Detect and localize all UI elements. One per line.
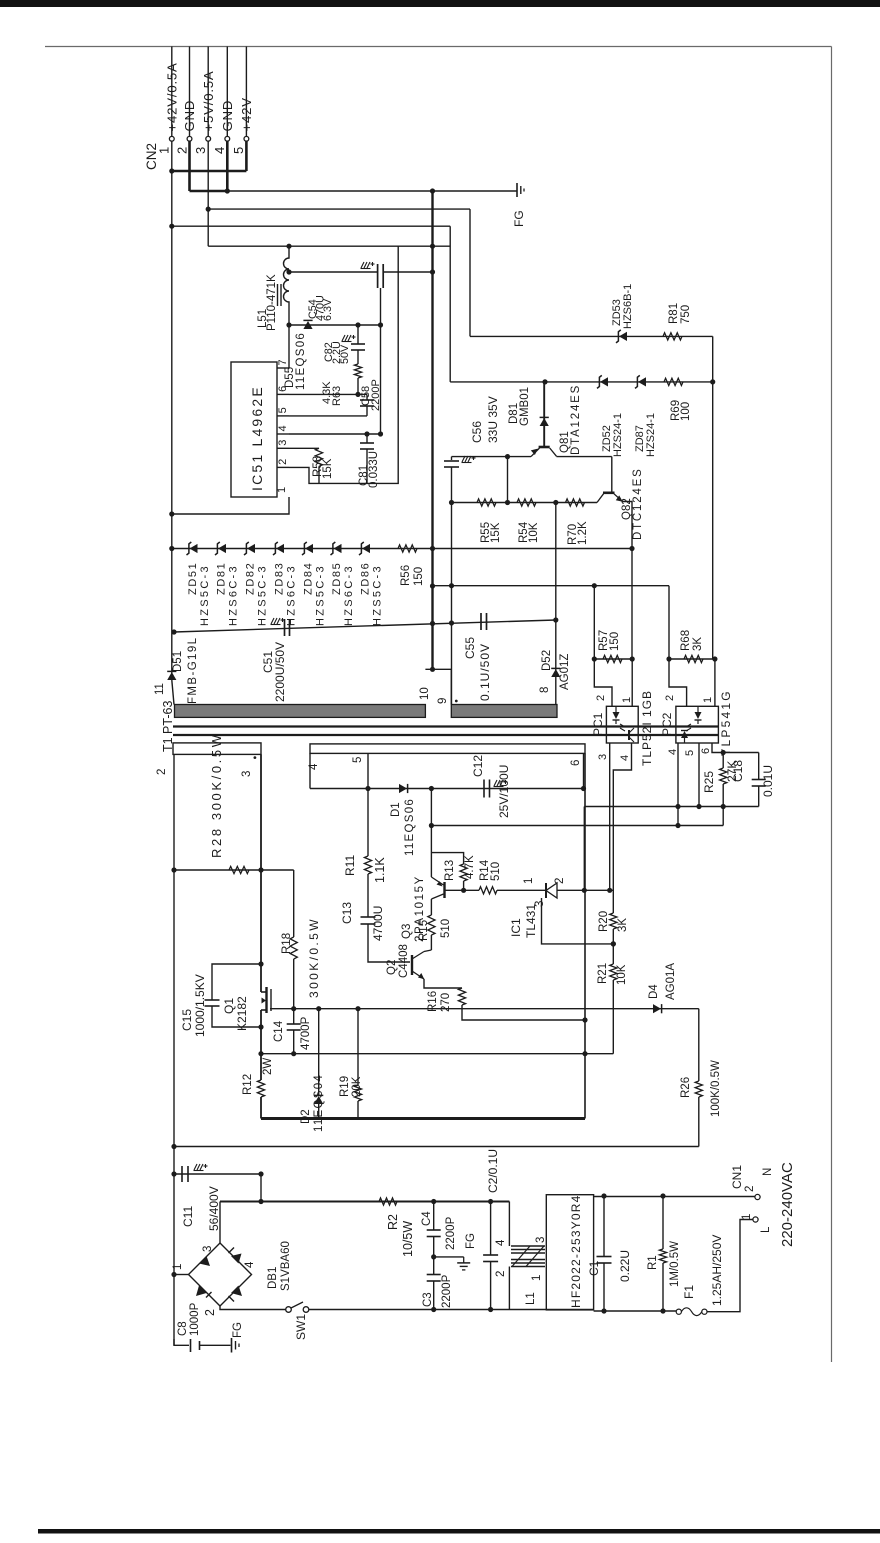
svg-text:100K/0.5W: 100K/0.5W (710, 1060, 722, 1117)
wire R1 column lower (662, 1263, 664, 1311)
wire C1 column lower (603, 1263, 605, 1311)
capacitor C4 (427, 1229, 441, 1231)
junction pin4 / C54 column (378, 431, 383, 436)
svg-text:N: N (762, 1168, 774, 1176)
svg-text:33U 35V: 33U 35V (486, 396, 500, 443)
junction return row / D1 column (429, 823, 434, 828)
resistor R15 (428, 915, 435, 935)
resistor R28 (229, 866, 249, 873)
svg-text:L: L (760, 1226, 772, 1233)
op-amp PC2 body (676, 706, 719, 743)
wire L1 pin4 lead (508, 1202, 510, 1247)
resistor R18 (290, 937, 297, 959)
ground FG symbol (top) (516, 183, 518, 197)
junction Q82 emitter / zener ground row (629, 546, 634, 551)
wire IC51 pin6 stub (277, 393, 289, 395)
wire PC2 pin5 column (698, 743, 700, 807)
resistor R1 (659, 1249, 666, 1263)
svg-text:Q1: Q1 (222, 998, 236, 1014)
wire R20-R21 link (612, 929, 614, 964)
svg-text:CN2: CN2 (144, 143, 159, 170)
svg-text:0.22U: 0.22U (618, 1250, 632, 1282)
fuse F1 (676, 1309, 681, 1314)
ground FG (filters) (463, 1257, 465, 1263)
svg-text:220-240VAC: 220-240VAC (779, 1162, 796, 1247)
wire GND link pins 2-4 (190, 190, 228, 193)
wire R11 to C13 (367, 874, 369, 917)
junction pin1/+42V (169, 168, 174, 173)
svg-text:GND: GND (182, 100, 197, 132)
svg-text:1: 1 (523, 878, 535, 884)
svg-text:3: 3 (241, 771, 253, 777)
resistor R14 (479, 887, 497, 894)
capacitor C54 (377, 264, 379, 288)
wire C14 upper lead (293, 1009, 295, 1024)
diode DB1-a (199, 1256, 210, 1266)
wire +5V bus drop (469, 209, 471, 336)
junction C56 column / C51 rail (449, 620, 454, 625)
zener ZD86 (362, 544, 370, 553)
junction R1 top (660, 1193, 665, 1198)
wire IC51 pin4 stub (277, 433, 289, 435)
wire ZD52 row (450, 381, 713, 383)
svg-text:4700P: 4700P (300, 1016, 312, 1050)
junction drain / C15 top (258, 961, 263, 966)
wire pin5 row drop (583, 807, 585, 891)
junction pin6 / D1 row (581, 786, 586, 791)
svg-text:15K: 15K (322, 458, 334, 479)
svg-text:5: 5 (231, 147, 246, 154)
diode D4 (653, 1004, 661, 1013)
wire T1 pin6 drop (583, 753, 585, 788)
svg-text:TLP52I 1GB: TLP52I 1GB (640, 690, 654, 766)
svg-text:C18: C18 (731, 760, 745, 782)
wire TL431 cathode lead (557, 889, 613, 891)
junction feed line / pin10 column (430, 244, 435, 249)
junction pin1 column / +42V bus (169, 224, 174, 229)
wire ZD53 row (470, 335, 713, 337)
wire R25 lower lead (722, 784, 724, 807)
wire C11 row (173, 1173, 261, 1175)
junction R68 left (666, 656, 671, 661)
resistor R26 (695, 1081, 702, 1097)
svg-text:15K: 15K (490, 522, 502, 543)
svg-text:4: 4 (495, 1239, 507, 1246)
svg-text:C12: C12 (471, 755, 485, 777)
svg-text:+42V: +42V (239, 97, 254, 131)
resistor R21 (610, 964, 617, 980)
wire C18 lower lead (758, 786, 760, 807)
junction C4-C3 / FG (431, 1254, 436, 1259)
polarity mark C56 (462, 456, 471, 462)
svg-text:2: 2 (156, 769, 168, 775)
wire pin4 line (289, 433, 381, 435)
svg-text:D52: D52 (541, 650, 553, 671)
junction pin1 column / C51 rail (171, 629, 176, 634)
svg-text:ZD85: ZD85 (331, 562, 343, 595)
svg-text:2W: 2W (262, 1058, 274, 1075)
wire CN2 pin2 lead above (189, 47, 191, 137)
svg-text:5: 5 (352, 757, 364, 763)
junction left column / R28 (171, 867, 176, 872)
svg-text:510: 510 (490, 862, 502, 881)
wire drain column (260, 754, 262, 870)
wire 5V sense rail (433, 585, 670, 587)
resistor R69 (664, 378, 683, 385)
wire +42V link pins 1-5 (172, 170, 247, 173)
wire gate row (270, 1008, 699, 1010)
capacitor C15 (205, 999, 220, 1001)
junction PC2 pin4 / pin5 row (675, 804, 680, 809)
svg-text:1: 1 (741, 1214, 753, 1220)
wire R1 column upper (662, 1196, 664, 1249)
junction base line / R54 divider (505, 454, 510, 459)
zener ZD85 (334, 544, 342, 553)
diode D1 (399, 784, 407, 793)
wire R57 row (594, 658, 632, 660)
svg-text:GND: GND (220, 100, 235, 132)
wire AC neutral rail (309, 1309, 594, 1311)
transformer core line 2 (173, 734, 719, 736)
wire R14 to TL431 (497, 889, 546, 891)
wire R26 column upper (698, 1009, 700, 1081)
polarity mark C12 (494, 780, 503, 786)
wire C8 row (174, 1339, 189, 1345)
diode DB1-c (196, 1286, 207, 1297)
wire L51 to pin7 (288, 325, 290, 368)
wire sense rail drop to R57 (593, 586, 595, 659)
capacitor C56 (444, 460, 459, 462)
svg-text:4700U: 4700U (371, 906, 385, 941)
svg-text:C55: C55 (463, 637, 477, 659)
wire D55 row (289, 324, 381, 326)
svg-text:TLP541G: TLP541G (719, 689, 733, 756)
resistor R63 (354, 364, 361, 378)
junction jog / pin10 column (430, 667, 435, 672)
svg-text:D2: D2 (300, 1109, 312, 1124)
svg-text:IC51 L4962E: IC51 L4962E (249, 385, 265, 491)
ground FG (C8) (231, 1338, 233, 1353)
junction R1 bottom (660, 1308, 665, 1313)
svg-text:11EQS06: 11EQS06 (295, 332, 307, 390)
svg-text:4: 4 (667, 749, 679, 755)
junction C81 / pin4 line (364, 431, 369, 436)
wire 5V-block feed line (208, 245, 450, 247)
svg-text:D4: D4 (648, 984, 660, 999)
svg-text:R26: R26 (680, 1077, 692, 1098)
svg-text:FMB-G19L: FMB-G19L (187, 637, 199, 704)
inductor L1 windings (511, 1245, 545, 1247)
svg-text:1: 1 (531, 1275, 543, 1281)
wire CN2 pin5 drop (+42V thick) (245, 141, 248, 171)
svg-text:HZS5C-3: HZS5C-3 (199, 564, 211, 626)
wire CN2 pin1 drop (171, 141, 173, 171)
svg-text:2200P: 2200P (445, 1216, 457, 1250)
resistor R57 (603, 655, 622, 662)
CN2 pin 2 terminal circle (187, 136, 192, 141)
wire D2 column lower (318, 1104, 320, 1119)
wire C11 to AC rail (260, 1174, 262, 1202)
wire CN2 pin4 drop (GND thick) (226, 141, 229, 191)
wire pin3 line (289, 447, 319, 449)
svg-text:R15: R15 (418, 920, 430, 941)
junction C1 top (601, 1193, 606, 1198)
junction D55 row / C54 column (378, 322, 383, 327)
wire C54 column to pin4 (380, 325, 382, 434)
junction left column / bridge (171, 1272, 176, 1277)
wire IC51 pin1 to +42V column (172, 497, 289, 514)
svg-text:5: 5 (277, 407, 289, 413)
junction pin10 column / sense rail (430, 583, 435, 588)
svg-text:Q3: Q3 (401, 924, 413, 939)
wire Q82 emitter to ground column (623, 502, 633, 660)
CN2 pin 1 terminal circle (169, 136, 174, 141)
wire CN2 pin4 lead above (226, 47, 228, 137)
CN1 pin1 terminal circle (753, 1217, 758, 1222)
junction C2 / live rail (488, 1199, 493, 1204)
wire +42V bus drop (449, 226, 451, 382)
svg-text:2: 2 (277, 459, 289, 465)
svg-text:4.7K: 4.7K (464, 855, 476, 879)
svg-text:AG01Z: AG01Z (559, 654, 571, 690)
svg-text:56/400V: 56/400V (207, 1186, 221, 1231)
svg-text:ZD84: ZD84 (303, 562, 315, 595)
wire +42V secondary column upper (171, 171, 173, 680)
svg-text:2: 2 (554, 878, 566, 884)
wire pin5 line (289, 415, 367, 417)
junction pin4/GND (225, 188, 230, 193)
svg-text:150: 150 (609, 632, 621, 651)
wire C56 column upper (451, 457, 453, 460)
svg-text:6: 6 (570, 760, 582, 766)
wire R18 column lower (293, 959, 295, 1009)
capacitor C1 (597, 1256, 612, 1258)
capacitor C12 (483, 780, 485, 798)
wire +5V output rail (C54) left (289, 271, 378, 273)
junction D81 column / ZD52 row (542, 379, 547, 384)
wire CN2 pin1 lead above (171, 47, 173, 137)
transistor Q2 (411, 955, 413, 975)
svg-text:150: 150 (413, 567, 425, 586)
page top black bar (0, 0, 880, 7)
wire pin10 to pin9 jog (425, 669, 451, 704)
wire T1 pin4 drop (309, 753, 311, 788)
wire C82 to R63 (357, 350, 359, 364)
wire C8 to FG (200, 1344, 231, 1346)
svg-text:PC1: PC1 (591, 712, 605, 736)
svg-text:4: 4 (619, 755, 631, 761)
junction PC2 pin5 / row (696, 804, 701, 809)
svg-text:HZS5C-3: HZS5C-3 (257, 564, 269, 626)
svg-text:R13: R13 (444, 860, 456, 881)
junction D1 column / D1 row (429, 786, 434, 791)
junction PC2 pin4 / return row (675, 823, 680, 828)
svg-text:AG01A: AG01A (665, 963, 677, 1000)
frame right border line (831, 47, 833, 1363)
wire PC1 pin1 lead (631, 659, 633, 706)
svg-text:T1 PT-63: T1 PT-63 (161, 701, 175, 752)
svg-text:11EQS04: 11EQS04 (313, 1074, 325, 1132)
capacitor C51 (284, 619, 286, 636)
zener ZD87 (638, 377, 646, 386)
wire CN2 pin2 drop (GND thick) (188, 141, 191, 191)
wire R25 upper lead (722, 753, 724, 769)
wire PC2 pin6 lead (712, 743, 723, 753)
svg-text:C13: C13 (340, 902, 354, 924)
svg-text:4: 4 (212, 147, 227, 154)
wire neutral rail right (594, 1310, 676, 1312)
wire D81 column (543, 382, 545, 447)
wire R28 row (174, 869, 294, 871)
svg-text:3: 3 (277, 440, 289, 446)
wire R63 to C58 (357, 378, 359, 394)
wire R26 column lower (698, 1097, 700, 1147)
svg-text:1000P: 1000P (189, 1302, 201, 1336)
wire source column (260, 1010, 262, 1080)
wire C14 lower lead (293, 1030, 295, 1054)
junction D52 column / C51 rail (553, 617, 558, 622)
svg-text:2200U/50V: 2200U/50V (273, 642, 287, 702)
junction ZD52 row / drop column (710, 379, 715, 384)
wire primary left column (173, 754, 175, 1345)
junction R20/R21 / ref row (611, 941, 616, 946)
polarity mark C54 (361, 262, 370, 268)
capacitor C11 (181, 1166, 183, 1182)
svg-text:C15: C15 (180, 1009, 194, 1031)
op-amp IC1 TL431 symbol (545, 883, 547, 898)
zener ZD84 (305, 544, 313, 553)
resistor R19 (354, 1085, 361, 1101)
diode D51 (167, 672, 176, 680)
transformer core line 1 (173, 725, 719, 727)
junction C56 column / 5V sense rail (449, 583, 454, 588)
wire +42V secondary column lower (172, 680, 174, 705)
svg-text:HZS5C-3: HZS5C-3 (372, 564, 384, 626)
svg-text:C2/0.1U: C2/0.1U (486, 1149, 500, 1193)
svg-text:TL431: TL431 (524, 904, 538, 938)
svg-text:R56: R56 (400, 565, 412, 586)
capacitor C18 (752, 779, 766, 781)
svg-text:3: 3 (193, 147, 208, 154)
svg-text:C56: C56 (470, 421, 484, 443)
junction R55/R54 (505, 500, 510, 505)
svg-text:6: 6 (700, 748, 712, 754)
junction D2 / gate row (316, 1006, 321, 1011)
junction pin3/+5V line (206, 207, 211, 212)
junction R13 / base row (461, 888, 466, 893)
wire PC2 pin2 lead (669, 659, 687, 706)
svg-text:R68: R68 (680, 630, 692, 651)
wire live rail right (594, 1196, 755, 1198)
svg-text:10/5W: 10/5W (401, 1221, 415, 1257)
svg-text:C1: C1 (587, 1260, 601, 1276)
transistor Q82 (603, 491, 615, 494)
transformer T1 primary winding 4-6 (310, 744, 585, 754)
svg-text:+5V/0.5A: +5V/0.5A (201, 70, 216, 131)
wire C15 upper lead (212, 964, 261, 1000)
wire pin5 row (584, 806, 758, 808)
svg-text:9: 9 (437, 698, 449, 704)
capacitor C82 (351, 343, 365, 345)
wire pin6 line ext (358, 393, 367, 395)
diode D2 (314, 1096, 323, 1104)
svg-text:1: 1 (621, 697, 633, 703)
polarity mark C11 (194, 1164, 203, 1170)
wire R19 column upper (357, 1009, 359, 1085)
diode DB1-d (231, 1286, 242, 1297)
wire +5V output rail (C54) right (383, 271, 432, 273)
svg-text:2200P: 2200P (441, 1274, 453, 1308)
phase dot pin3 (254, 756, 257, 759)
wire bridge left stub (173, 1274, 189, 1276)
resistor R16 (458, 988, 465, 1005)
wire C13 to Q2 base (368, 924, 410, 962)
frame top border line (45, 46, 832, 48)
capacitor C55 (480, 613, 482, 630)
wire F1 to CN1 pin1 (707, 1220, 753, 1312)
zener ZD81 (218, 544, 226, 553)
op-amp IC51 body (231, 362, 277, 497)
svg-text:+42V/0.5A: +42V/0.5A (164, 62, 179, 131)
resistor R20 (610, 913, 617, 929)
wire R12 to bus (260, 1097, 262, 1119)
wire R68 row (669, 658, 715, 660)
wire C51/C55 rail (174, 620, 556, 632)
svg-text:2: 2 (595, 695, 607, 701)
resistor R56 (398, 545, 417, 552)
wire L51 top lead (288, 246, 290, 252)
wire HV startup rail (173, 1146, 699, 1148)
svg-text:2: 2 (664, 695, 676, 701)
svg-text:DB1: DB1 (267, 1267, 279, 1289)
svg-text:5: 5 (684, 750, 696, 756)
wire C81 top lead (366, 434, 368, 443)
svg-text:300K/0.5W: 300K/0.5W (307, 917, 321, 998)
diode D81 (540, 418, 549, 426)
svg-text:7: 7 (277, 359, 289, 365)
wire CN2 pin5 lead above (245, 47, 247, 137)
svg-text:DTC124ES: DTC124ES (632, 467, 644, 540)
wire IC51 pin7 stub (277, 367, 289, 369)
inductor L1 module box (546, 1195, 593, 1310)
junction pin6 / R25 loop (721, 750, 726, 755)
svg-text:0.033U: 0.033U (368, 451, 380, 488)
resistor R25 (720, 768, 727, 784)
wire D2 column upper (318, 1009, 320, 1095)
svg-text:0.1U/50V: 0.1U/50V (478, 643, 492, 701)
diode bridge DB1 outline (189, 1243, 252, 1306)
junction R57 left (592, 656, 597, 661)
wire +5V bus (208, 208, 470, 210)
wire C2 column upper (490, 1202, 492, 1256)
svg-text:GMB01: GMB01 (519, 387, 531, 426)
resistor R68 (684, 655, 703, 662)
wire C1 column upper (603, 1196, 605, 1257)
polarity mark C82 (342, 335, 351, 341)
wire R15 lower lead (430, 935, 432, 950)
junction C2 / neutral rail (488, 1307, 493, 1312)
transformer T1 secondary winding 9-8 (451, 705, 557, 718)
zener ZD52 (600, 377, 608, 386)
svg-text:11EQS06: 11EQS06 (404, 798, 416, 856)
wire CN2 pin3 lead above (207, 47, 209, 137)
junction R19 / gate row (355, 1006, 360, 1011)
junction L51 / D55 row (286, 322, 291, 327)
svg-text:ZD83: ZD83 (274, 562, 286, 595)
CN2 pin 3 terminal circle (206, 136, 211, 141)
junction C3 / neutral rail (431, 1307, 436, 1312)
svg-text:1.1K: 1.1K (373, 857, 387, 883)
